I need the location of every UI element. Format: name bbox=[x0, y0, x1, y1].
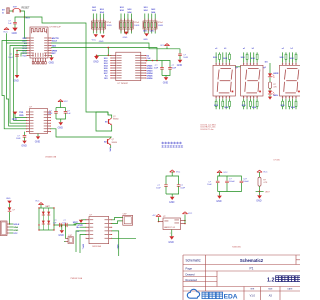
ground R pull bbox=[256, 195, 262, 202]
svg-text:VCC: VCC bbox=[223, 172, 228, 174]
svg-text:RST: RST bbox=[26, 17, 31, 19]
svg-text:GND: GND bbox=[216, 200, 222, 203]
wires U5 right to CN bbox=[112, 218, 123, 224]
svg-text:GND: GND bbox=[58, 234, 64, 237]
pins display top x=240.6 bbox=[243, 63, 258, 66]
pins U2 bottom bbox=[32, 53, 46, 64]
ground group A bbox=[169, 194, 175, 204]
svg-text:CH340N USB: CH340N USB bbox=[45, 157, 57, 159]
ground group B bbox=[216, 192, 222, 203]
svg-text:Reviewed: Reviewed bbox=[186, 278, 198, 282]
power flag VCC group B bbox=[217, 171, 228, 176]
ground U7 bbox=[168, 230, 174, 245]
svg-text:GND: GND bbox=[13, 79, 19, 82]
svg-text:VCC: VCC bbox=[188, 213, 193, 215]
net labels U2 right bbox=[52, 37, 60, 55]
svg-text:10KΩ: 10KΩ bbox=[134, 25, 140, 27]
capacitor C9 10uF bbox=[156, 176, 172, 194]
svg-text:RESET: RESET bbox=[22, 7, 31, 10]
buzzer LS1 bbox=[66, 235, 74, 244]
resistor R6 4.7k bbox=[258, 177, 268, 186]
IC U1 CH340 USB-serial bbox=[30, 106, 48, 133]
wires resistor network at x=150 bbox=[145, 14, 155, 34]
svg-text:S8050: S8050 bbox=[112, 142, 117, 144]
ground U2 GND pin bbox=[49, 56, 55, 65]
svg-text:b1: b1 bbox=[224, 48, 226, 50]
wire U5 right down bbox=[112, 231, 119, 256]
svg-text:100nF: 100nF bbox=[243, 181, 249, 183]
wires Q2 collector emitter bbox=[110, 137, 112, 148]
resistor network R?x4 at x=126.2 bbox=[119, 21, 140, 29]
svg-text:GND: GND bbox=[35, 140, 41, 143]
svg-text:1.2: 1.2 bbox=[267, 277, 275, 283]
capacitor C12 100nF bbox=[218, 176, 236, 192]
title block table bbox=[183, 255, 300, 300]
svg-text:GND: GND bbox=[93, 60, 99, 63]
svg-text:U?: U? bbox=[163, 216, 165, 218]
wires Q1 collector emitter bbox=[96, 112, 112, 131]
wires and resistors below display x=240.6 bbox=[243, 99, 258, 110]
net labels U4 left pins bbox=[104, 58, 109, 80]
svg-text:MIX2018A: MIX2018A bbox=[92, 245, 101, 248]
ground U5 pin1 bbox=[77, 220, 86, 227]
resistor R5 470 bbox=[269, 82, 277, 89]
wire + node bbox=[256, 186, 270, 195]
svg-text:GND: GND bbox=[99, 41, 104, 43]
wire RST top route to Q1 bbox=[25, 17, 109, 115]
transistor Q1 S8050 bbox=[105, 116, 118, 125]
pins U5 left bbox=[86, 219, 94, 239]
wire bus left (ESP left pins to lower circuits) bbox=[2, 33, 27, 129]
IC U4 TM1637 bbox=[116, 52, 141, 85]
svg-text:GND: GND bbox=[123, 37, 128, 39]
diode D4 bbox=[8, 207, 15, 224]
svg-text:DIG3 S4 T 1-0m: DIG3 S4 T 1-0m bbox=[201, 129, 215, 131]
svg-text:D?: D? bbox=[13, 210, 15, 212]
svg-text:104F: 104F bbox=[183, 57, 188, 59]
svg-text:470: 470 bbox=[273, 87, 276, 89]
battery BT1 diode block bbox=[38, 205, 54, 231]
svg-text:2: 2 bbox=[170, 233, 171, 235]
svg-text:BAT?: BAT? bbox=[46, 205, 51, 208]
svg-text:D? LED: D? LED bbox=[274, 159, 281, 161]
svg-text:104F: 104F bbox=[180, 188, 185, 190]
svg-text:V1.0: V1.0 bbox=[250, 293, 256, 297]
svg-text:VCC: VCC bbox=[13, 233, 18, 235]
wire net SPEN (long horizontal) bbox=[51, 43, 180, 49]
LED D2 bbox=[268, 91, 279, 97]
net labels below display x=240.6 bbox=[242, 105, 257, 109]
svg-text:104F: 104F bbox=[16, 138, 21, 140]
svg-text:PWR-IN 5V1A: PWR-IN 5V1A bbox=[71, 277, 83, 280]
svg-text:GND: GND bbox=[6, 198, 11, 200]
power flag VCC R pull bbox=[257, 170, 268, 177]
ground below C4 C5 bbox=[163, 76, 169, 85]
svg-text:a1: a1 bbox=[243, 48, 245, 50]
net labels OLED pins bbox=[13, 224, 19, 235]
svg-text:A3: A3 bbox=[269, 293, 273, 297]
wire C1 to ground bbox=[14, 24, 16, 28]
wire battery out bbox=[54, 224, 76, 225]
capacitor C4 104 bbox=[154, 61, 164, 76]
svg-text:DIO: DIO bbox=[143, 31, 147, 33]
display DS 7-segment at x=240.6 bbox=[241, 65, 263, 96]
svg-text:LEDL: LEDL bbox=[273, 95, 279, 97]
svg-text:VCC: VCC bbox=[35, 200, 40, 202]
wire bbox=[269, 77, 271, 82]
wires and resistors above display x=240.6 bbox=[244, 52, 258, 62]
resistor network R?x4 at x=98.5 bbox=[92, 21, 113, 29]
ground below C7 C8 bbox=[58, 119, 64, 129]
svg-text:VCC: VCC bbox=[64, 101, 69, 103]
svg-text:P1: P1 bbox=[250, 267, 254, 271]
svg-text:B2: B2 bbox=[104, 141, 106, 143]
pins U4 left bbox=[110, 55, 121, 79]
svg-text:AMS1117-3.3: AMS1117-3.3 bbox=[164, 226, 175, 229]
svg-text:b1: b1 bbox=[291, 48, 293, 50]
pin U7 VIN + power +5V bbox=[152, 214, 163, 222]
capacitor C11 10uF bbox=[207, 176, 219, 192]
power flags below RN1 bbox=[92, 34, 105, 43]
svg-text:SPK: SPK bbox=[108, 148, 110, 153]
svg-text:100nF: 100nF bbox=[229, 181, 235, 183]
capacitor C15 104 (series) bbox=[62, 220, 67, 227]
svg-text:104F: 104F bbox=[172, 68, 177, 70]
pins U1 right bbox=[44, 112, 51, 133]
svg-text:U? TM1637: U? TM1637 bbox=[118, 83, 129, 85]
wires and resistors below display x=279.5 bbox=[282, 99, 297, 110]
svg-text:GND: GND bbox=[177, 64, 183, 67]
capacitor C14 1uF (series) bbox=[53, 220, 61, 227]
svg-text:GND: GND bbox=[58, 126, 64, 129]
svg-text:GND: GND bbox=[12, 32, 18, 35]
svg-text:104: 104 bbox=[62, 222, 65, 224]
connector OLED (edge) bbox=[0, 221, 13, 236]
svg-text:Page: Page bbox=[186, 266, 193, 270]
svg-text:LED?: LED? bbox=[265, 192, 270, 194]
net labels above display x=213 bbox=[213, 48, 228, 60]
ground U4 pin1 bbox=[93, 55, 111, 64]
pins display top x=279.5 bbox=[282, 63, 297, 66]
net labels U2 left bbox=[22, 38, 27, 58]
pins U2 left bbox=[27, 38, 34, 57]
node RST bbox=[24, 16, 26, 18]
wire bbox=[269, 88, 271, 90]
power flag below RN3 bbox=[143, 31, 154, 41]
svg-text:SPK+: SPK+ bbox=[82, 244, 84, 250]
svg-text:10KΩ: 10KΩ bbox=[158, 25, 164, 27]
svg-text:TJM4 LED: TJM4 LED bbox=[232, 247, 242, 249]
svg-text:VCC: VCC bbox=[176, 171, 181, 173]
svg-text:S8050: S8050 bbox=[113, 119, 118, 121]
svg-text:SDA: SDA bbox=[52, 44, 57, 47]
wires and resistors above display x=279.5 bbox=[283, 52, 297, 62]
wire RST to C1 bbox=[15, 17, 25, 22]
module U2 ESP-12F bbox=[30, 27, 62, 58]
svg-text:SPK-: SPK- bbox=[116, 245, 118, 250]
net VCC (left bus) bbox=[3, 28, 9, 34]
ground below series caps bbox=[58, 224, 64, 237]
svg-text:CLK: CLK bbox=[150, 31, 155, 33]
svg-text:10uF: 10uF bbox=[8, 57, 13, 59]
resistor network R?x4 at x=150 bbox=[143, 21, 164, 29]
svg-text:CLK: CLK bbox=[147, 58, 152, 60]
net labels below display x=279.5 bbox=[280, 105, 295, 109]
ground U1 bottom bbox=[35, 134, 41, 144]
svg-text:GND: GND bbox=[169, 201, 175, 204]
svg-text:GND: GND bbox=[163, 81, 169, 84]
text note (blue two lines) bbox=[162, 142, 184, 148]
svg-text:VCC: VCC bbox=[160, 45, 165, 47]
svg-text:Schematic2: Schematic2 bbox=[240, 258, 264, 263]
svg-text:GRID6: GRID6 bbox=[147, 78, 153, 80]
ground OLED chain bbox=[6, 198, 12, 207]
pins U4 right bbox=[135, 55, 146, 79]
svg-text:a1: a1 bbox=[215, 48, 217, 50]
net labels U5 left bbox=[76, 227, 86, 233]
svg-text:DIO: DIO bbox=[104, 78, 108, 80]
wire audio in to U5 bbox=[74, 224, 86, 226]
pins display bottom x=213 bbox=[215, 96, 230, 99]
wire net SDA2 drop to U4 bbox=[108, 47, 110, 56]
display DS 7-segment at x=213 bbox=[213, 65, 235, 96]
ground colon bbox=[268, 95, 272, 100]
ground below C3 bbox=[177, 60, 183, 67]
svg-text:G: G bbox=[2, 12, 4, 14]
wires resistor network at x=126.2 bbox=[121, 14, 131, 34]
svg-text:VCC: VCC bbox=[92, 40, 97, 42]
svg-text:Drawed: Drawed bbox=[186, 272, 195, 276]
pins display top x=213 bbox=[215, 63, 230, 66]
ground below C2 bbox=[13, 75, 19, 82]
svg-text:GND: GND bbox=[21, 145, 27, 148]
net labels below display x=213 bbox=[214, 105, 229, 109]
svg-text:TXD: TXD bbox=[19, 112, 24, 114]
svg-text:Schematic:: Schematic: bbox=[186, 258, 202, 262]
svg-text:104F: 104F bbox=[154, 68, 159, 70]
capacitor C13 100nF bbox=[218, 176, 250, 192]
net labels above display x=279.5 bbox=[279, 48, 294, 60]
net labels above pack x=126.2 bbox=[120, 7, 132, 14]
net labels U4 right GRID bbox=[147, 55, 154, 80]
svg-text:10uF: 10uF bbox=[207, 184, 212, 186]
wire between DS1 DS2 bbox=[235, 66, 240, 68]
capacitor C10 104 bbox=[166, 176, 186, 194]
svg-text:VER: VER bbox=[250, 289, 255, 291]
regulator U7 AMS1117-3.3 bbox=[163, 216, 181, 229]
power flag VCC group A bbox=[170, 170, 181, 176]
pins U1 left bbox=[26, 112, 34, 133]
capacitor C5 104 bbox=[162, 61, 177, 76]
svg-text:EDA: EDA bbox=[224, 294, 238, 300]
capacitor C3 104 bbox=[178, 49, 189, 60]
LED D1 bbox=[268, 73, 279, 78]
wires resistor network at x=98.5 bbox=[93, 14, 103, 34]
svg-text:SDA: SDA bbox=[13, 226, 18, 229]
power flag VCC battery bbox=[35, 200, 43, 208]
pins U2 right bbox=[44, 38, 51, 57]
svg-text:a1: a1 bbox=[282, 48, 284, 50]
wires buzzer to net bbox=[64, 224, 66, 241]
net labels U1 left bbox=[19, 112, 24, 117]
ground U1 left bbox=[12, 112, 27, 122]
svg-text:SIZE: SIZE bbox=[268, 289, 273, 291]
svg-text:104F: 104F bbox=[48, 113, 53, 115]
connector CN1 bbox=[123, 214, 133, 226]
text annotation display modes bbox=[201, 124, 217, 130]
wire P1 to SW1 bbox=[9, 10, 13, 12]
wire U1 TX to transistor row bbox=[51, 129, 112, 137]
svg-text:GND: GND bbox=[12, 118, 18, 121]
svg-text:GND: GND bbox=[256, 200, 262, 203]
IC U5 audio amplifier bbox=[89, 215, 109, 244]
ground below C1 bbox=[12, 28, 18, 35]
svg-text:VCC: VCC bbox=[263, 172, 268, 174]
net labels above display x=240.6 bbox=[241, 48, 256, 60]
svg-text:GND: GND bbox=[13, 230, 18, 232]
pins display bottom x=240.6 bbox=[243, 96, 258, 99]
wires and resistors above display x=213 bbox=[216, 52, 230, 62]
svg-text:RXD: RXD bbox=[19, 115, 24, 117]
svg-text:10uF: 10uF bbox=[156, 188, 161, 190]
title block texts bbox=[186, 258, 314, 298]
connector P1 (power header) bbox=[2, 8, 9, 15]
svg-text:SCLK: SCLK bbox=[13, 224, 19, 226]
wires and resistors below display x=213 bbox=[215, 99, 230, 110]
capacitor C7 C8 right of U1 bbox=[48, 100, 72, 119]
net labels above pack x=98.5 bbox=[92, 7, 104, 14]
svg-text:LEDR: LEDR bbox=[273, 73, 279, 75]
wires U5 lower left bbox=[76, 231, 86, 253]
capacitor C2 10uF on bus bbox=[8, 54, 18, 59]
display DS 7-segment at x=279.5 bbox=[280, 65, 302, 96]
wire SW1 to RST node bbox=[20, 11, 27, 38]
logo JLCEDA bbox=[187, 289, 237, 300]
svg-text:DATE: DATE bbox=[288, 288, 294, 291]
transistor Q2 S8050 bbox=[104, 138, 117, 145]
wire colon circuit bbox=[269, 63, 271, 73]
wire U4 DIO to caps rail bbox=[146, 60, 162, 62]
pins display bottom x=279.5 bbox=[282, 96, 297, 99]
capacitor C1 bbox=[8, 21, 17, 26]
wire net SDA2 (long horizontal) bbox=[51, 48, 157, 61]
pins U7 VOUT + power VCC bbox=[181, 212, 193, 225]
switch SW1 RESET button bbox=[13, 6, 30, 12]
pins U5 right bbox=[105, 219, 113, 239]
svg-text:VCC: VCC bbox=[22, 55, 27, 57]
power flag below RN2 bbox=[123, 32, 129, 40]
svg-text:SCLK: SCLK bbox=[52, 40, 58, 42]
net labels above pack x=150 bbox=[144, 7, 156, 14]
wire U5 out long bbox=[112, 237, 136, 239]
svg-text:B1: B1 bbox=[105, 121, 107, 123]
svg-text:GND: GND bbox=[49, 61, 55, 64]
capacitor C6 104 below U1 bbox=[16, 132, 27, 148]
svg-text:10KΩ: 10KΩ bbox=[107, 25, 113, 27]
svg-text:GND: GND bbox=[143, 39, 148, 41]
svg-text:U? ESP-12F: U? ESP-12F bbox=[50, 27, 62, 29]
power flag VCC on wire bbox=[160, 44, 169, 49]
svg-text:GND: GND bbox=[168, 241, 174, 244]
svg-text:VCC: VCC bbox=[3, 32, 8, 34]
svg-text:b1: b1 bbox=[252, 48, 254, 50]
